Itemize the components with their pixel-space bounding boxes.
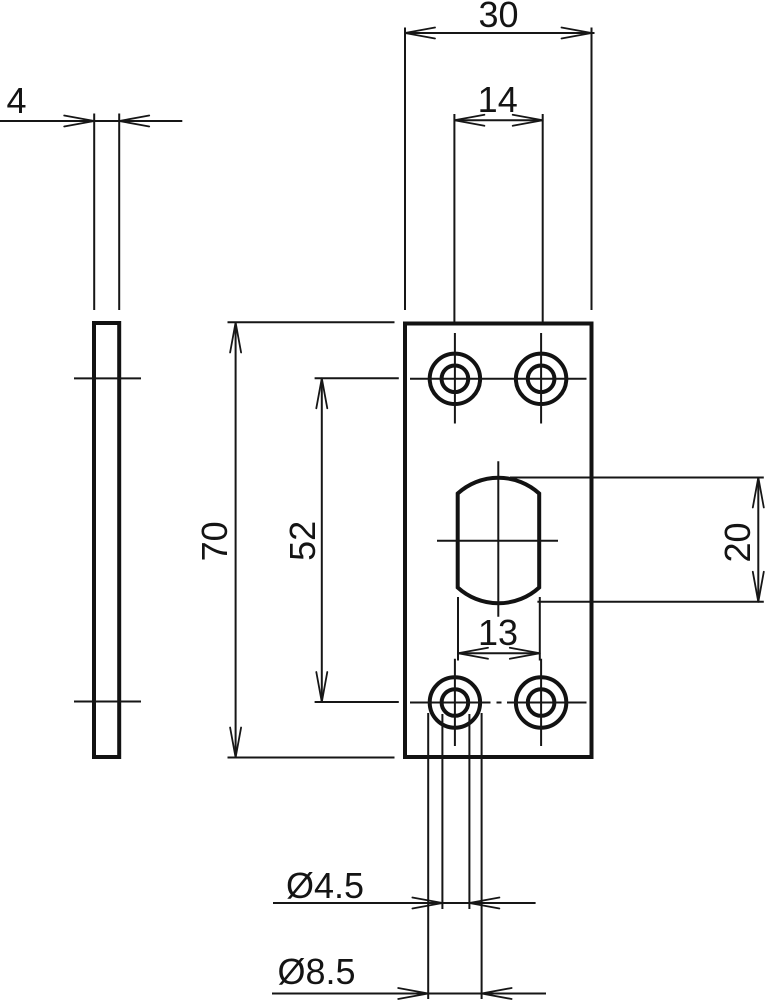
dimension diameter 8.5: arrow right xyxy=(482,988,512,999)
dimension 20: extension line bottom xyxy=(537,601,763,603)
bottom holes horizontal centerline right segment xyxy=(507,702,587,704)
dimension 4: extension line right xyxy=(118,114,120,311)
dimension 14: dimension line xyxy=(454,119,542,121)
dimension 52: arrow top xyxy=(316,378,327,408)
dimension 20: arrow bottom xyxy=(753,572,764,602)
dimension 14: extension line right xyxy=(542,114,544,322)
svg-text:52: 52 xyxy=(282,521,323,561)
svg-text:13: 13 xyxy=(478,612,518,653)
side view hole centerline tick top xyxy=(74,377,141,379)
hole bottom-right outer circle xyxy=(516,677,566,727)
side view hole centerline tick bottom xyxy=(74,701,141,703)
dimension 70: arrow bottom xyxy=(230,728,241,758)
hole top-left inner circle xyxy=(442,366,469,393)
dimension 70: extension line bottom xyxy=(228,757,395,759)
dimension diameter 8.5: arrow left xyxy=(398,988,428,999)
dimension 4: dimension line xyxy=(0,120,182,122)
dimension 20: dimension line xyxy=(757,478,759,602)
dimension 30: extension line right xyxy=(591,28,593,311)
dimension diameter 4.5: arrow right xyxy=(469,898,499,909)
svg-text:70: 70 xyxy=(194,521,235,561)
dimension diameter 4.5: arrow left xyxy=(412,898,442,909)
dimension 4: arrow left xyxy=(64,116,94,127)
dimension 13: dimension line xyxy=(458,652,540,654)
hole bottom-left inner circle xyxy=(442,689,469,716)
dimension 52: extension line bottom xyxy=(315,701,399,703)
dimension 52: arrow bottom xyxy=(316,672,327,702)
latch slot outline xyxy=(458,478,540,604)
hole diameter 8.5 silhouette line right xyxy=(481,713,483,999)
front view plate body xyxy=(405,324,592,758)
hole top-right vertical centerline xyxy=(540,333,542,424)
dimension 14: extension line left xyxy=(453,114,455,322)
dimension 13: arrow left xyxy=(458,648,488,659)
dimension 52: extension line top xyxy=(315,377,399,379)
dimension 70: arrow top xyxy=(230,323,241,353)
dimension 14: arrow right xyxy=(513,115,543,126)
hole top-right outer circle xyxy=(516,354,566,404)
dimension 30: dimension line xyxy=(404,32,595,34)
top holes horizontal centerline xyxy=(410,378,587,380)
hole top-right inner circle xyxy=(528,366,555,393)
dimension 20: extension line top xyxy=(510,477,764,479)
dimension 70: dimension line xyxy=(235,323,237,758)
dimension 20: arrow top xyxy=(753,478,764,508)
dimension 30: extension line left xyxy=(404,28,406,311)
svg-text:20: 20 xyxy=(717,522,758,562)
hole top-left vertical centerline xyxy=(454,333,456,424)
dimension 13: extension line left xyxy=(457,597,459,661)
dimension 4: arrow right xyxy=(119,116,149,127)
svg-text:30: 30 xyxy=(478,0,518,35)
dimension 14: arrow left xyxy=(454,115,484,126)
hole diameter 4.5 silhouette line left xyxy=(441,714,443,909)
svg-text:Ø4.5: Ø4.5 xyxy=(286,865,364,906)
bottom holes horizontal centerline left segment xyxy=(410,702,491,704)
hole bottom-right vertical centerline xyxy=(540,659,542,746)
dimension 30: arrow left xyxy=(405,28,435,39)
hole bottom-left outer circle xyxy=(430,677,480,727)
bottom holes horizontal centerline center dash xyxy=(497,702,502,704)
hole diameter 4.5 silhouette line right xyxy=(468,714,470,909)
dimension 4: extension line left xyxy=(93,114,95,311)
hole top-left outer circle xyxy=(430,354,480,404)
svg-text:14: 14 xyxy=(478,79,518,120)
hole diameter 8.5 silhouette line left xyxy=(427,713,429,999)
dimension 13: arrow right xyxy=(510,648,540,659)
svg-text:Ø8.5: Ø8.5 xyxy=(278,951,356,992)
hole bottom-left vertical centerline xyxy=(454,659,456,746)
svg-text:4: 4 xyxy=(6,80,26,121)
latch slot horizontal centerline xyxy=(437,540,558,542)
hole bottom-right inner circle xyxy=(528,689,555,716)
dimension diameter 4.5: dimension line xyxy=(273,902,536,904)
dimension 52: dimension line xyxy=(321,378,323,702)
latch slot vertical centerline xyxy=(497,461,499,617)
dimension 13: extension line right xyxy=(539,597,541,661)
dimension diameter 8.5: dimension line xyxy=(272,993,546,995)
side view plate body xyxy=(94,323,119,757)
dimension 70: extension line top xyxy=(228,321,395,323)
dimension 30: arrow right xyxy=(562,28,592,39)
